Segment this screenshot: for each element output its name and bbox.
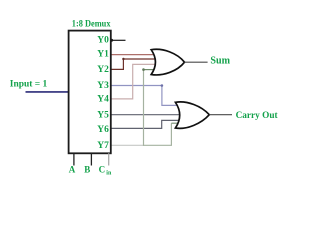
wire Y3 to Carry gate <box>111 86 180 106</box>
svg-text:Y2: Y2 <box>97 65 109 75</box>
wire Y4 to Sum gate <box>111 64 160 99</box>
svg-text:Y0: Y0 <box>97 36 109 46</box>
wire Y2 to Sum gate <box>111 59 160 69</box>
svg-text:Y6: Y6 <box>97 125 109 135</box>
node Y7 Sum corner dot <box>142 68 145 71</box>
node Y0 junction dot <box>110 39 113 42</box>
wire input line <box>26 91 69 93</box>
wire Y7 gray segment from box <box>111 144 144 146</box>
wire Y7 dark green entry into Sum gate <box>144 69 160 71</box>
select stub Cin <box>108 153 110 165</box>
svg-text:Y7: Y7 <box>97 141 109 151</box>
svg-text:Sum: Sum <box>210 55 230 66</box>
op gate: Carry OR gate U2 <box>175 102 209 128</box>
svg-text:Input = 1: Input = 1 <box>10 79 48 89</box>
select stub B <box>90 153 92 165</box>
wire Y5 to Carry gate <box>111 114 182 116</box>
select stub A <box>73 153 75 165</box>
node Y3 corner dot <box>161 84 164 87</box>
op gate: Sum OR gate U1 <box>151 49 184 75</box>
wire Y1 to Sum gate <box>111 54 160 56</box>
svg-text:A: A <box>69 165 76 175</box>
demux box <box>69 31 111 154</box>
svg-text:Y4: Y4 <box>97 95 109 105</box>
wire Y7 green entry into Carry gate <box>171 122 179 124</box>
svg-text:Y5: Y5 <box>97 110 109 120</box>
wire Sum output <box>185 61 208 63</box>
svg-text:in: in <box>106 170 112 176</box>
svg-text:1:8 Demux: 1:8 Demux <box>72 18 111 29</box>
svg-text:B: B <box>84 165 90 175</box>
wire Y6 to Carry gate <box>111 120 182 128</box>
svg-text:C: C <box>99 165 106 175</box>
wire Y7 light sage riser to Sum gate <box>143 70 145 146</box>
svg-text:Y1: Y1 <box>97 50 109 60</box>
wire Y0 stub <box>111 39 126 41</box>
wire Carry output <box>209 114 232 116</box>
node Y2 corner dot <box>122 58 124 60</box>
svg-text:Y3: Y3 <box>97 81 109 91</box>
svg-text:Carry Out: Carry Out <box>236 110 279 121</box>
wire Y7 branch right along row to Carry gate riser <box>144 123 172 145</box>
